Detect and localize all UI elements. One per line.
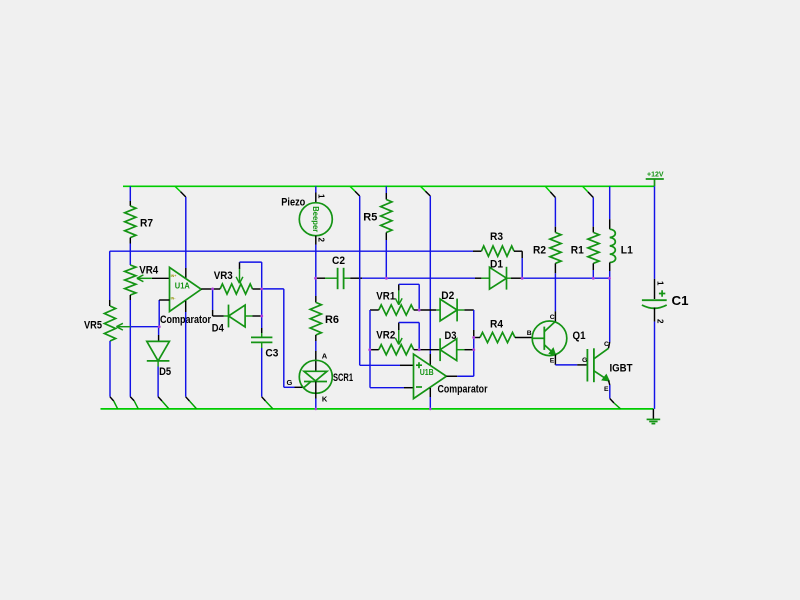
potentiometer VR2 [379, 345, 414, 355]
junction R1 bottom [592, 277, 595, 280]
resistor R3 [481, 246, 514, 256]
wire VR3 node right and down to SCR gate [262, 288, 284, 290]
wire R4 to Q1 base [515, 337, 533, 339]
wire C2 to D1 anode [362, 277, 475, 279]
wire R3 right down [514, 250, 522, 252]
wire VR2 right lead [414, 349, 419, 351]
wire rail to U1A V+ pin [175, 186, 181, 191]
wire VR5 to bottom rail [109, 341, 111, 397]
svg-text:1: 1 [317, 194, 326, 199]
wire C3 to bottom rail [261, 342, 263, 348]
svg-text:SCR1: SCR1 [333, 372, 353, 384]
resistor R4 [480, 332, 515, 342]
svg-text:D3: D3 [445, 330, 457, 342]
svg-text:U1A: U1A [175, 281, 190, 290]
potentiometer VR5 [104, 306, 115, 341]
junction VR2 left [368, 348, 371, 351]
diode D1 [490, 267, 507, 289]
svg-text:VR5: VR5 [84, 319, 102, 331]
wire U1B V- to bottom rail [429, 388, 431, 397]
wire R2 to Q1 collector [554, 263, 556, 273]
svg-text:VR3: VR3 [214, 270, 233, 282]
wire D5 to bottom rail [157, 361, 159, 367]
wire +12V top power rail [123, 185, 655, 187]
svg-text:1: 1 [655, 281, 664, 286]
wire +in feed [360, 364, 400, 366]
svg-text:IN-: IN- [171, 297, 177, 301]
wire VR1 right lead [414, 309, 419, 311]
svg-text:2: 2 [655, 319, 664, 324]
svg-text:R1: R1 [571, 245, 584, 257]
transistor IGBT [582, 341, 633, 393]
wire R6 to SCR anode [315, 335, 317, 341]
wire ground bottom rail [101, 408, 654, 410]
wire rail to piezo pin1 [315, 186, 317, 192]
wire VR4 wiper to U1A +in [152, 277, 170, 279]
svg-text:A: A [322, 352, 328, 361]
junction L1 bottom [608, 277, 611, 280]
wire U1A V- to bottom rail [185, 301, 187, 312]
junction VR3 right [260, 287, 263, 290]
inductor L1 [610, 229, 616, 262]
wire rail to C1 pin1 [654, 186, 656, 279]
wire VR5 wiper node [131, 326, 160, 328]
svg-text:R4: R4 [490, 319, 504, 331]
capacitor C2 [316, 255, 362, 289]
resistor R7 [125, 206, 136, 238]
junction VR5 wiper node [158, 325, 161, 328]
svg-text:Comparator: Comparator [438, 383, 489, 395]
wire rail drop to U1B V+ [421, 186, 426, 191]
diode D3 [440, 339, 457, 361]
wire VR2 left down to U1B -in [369, 350, 371, 388]
resistor R6 [310, 302, 321, 335]
junction R4 left node [472, 336, 475, 339]
wire SCR cathode to bottom rail [315, 382, 317, 399]
svg-text:R2: R2 [533, 245, 546, 257]
svg-text:C3: C3 [265, 348, 278, 360]
svg-text:G: G [582, 357, 587, 364]
wire VR1 wiper loop [398, 284, 400, 290]
resistor R2 [550, 233, 561, 264]
wire collector net horizontal [522, 277, 609, 279]
svg-text:R5: R5 [363, 211, 377, 223]
wire IGBT collector [609, 342, 610, 348]
power +12V symbol [646, 172, 664, 187]
ground symbol [647, 409, 661, 424]
wire piezo pin2 down [315, 236, 317, 245]
svg-text:2: 2 [317, 238, 326, 243]
wire L1 down [609, 263, 611, 272]
wire node to R6 [315, 278, 317, 296]
wire rail drop to R1 [583, 186, 588, 192]
wire VR2 wiper loop [398, 323, 400, 331]
potentiometer VR1 [379, 305, 414, 315]
thyristor SCR1 [299, 360, 353, 393]
svg-text:R3: R3 [490, 231, 503, 243]
svg-text:E: E [604, 386, 609, 393]
svg-text:+12V: +12V [647, 172, 664, 179]
resistor R1 [588, 233, 599, 264]
op-amp U1B [414, 354, 447, 399]
svg-text:VR1: VR1 [376, 291, 395, 303]
svg-text:K: K [322, 394, 328, 403]
wire left drop to VR5 [109, 251, 111, 300]
wire VR3 node down to D4 right [261, 289, 263, 316]
transistor Q1 [527, 314, 586, 364]
capacitor C1 polarized [642, 290, 689, 308]
wire rail to L1 [609, 186, 611, 219]
wire rail drop to R2 [545, 186, 550, 192]
svg-text:D2: D2 [441, 290, 454, 302]
svg-text:L1: L1 [621, 245, 633, 257]
svg-text:IGBT: IGBT [610, 362, 633, 374]
wire U1B output [446, 375, 457, 377]
junction D3 right [472, 348, 475, 351]
svg-text:D4: D4 [212, 322, 225, 334]
junction U1B V- at rail [429, 408, 432, 411]
svg-text:U1B: U1B [420, 368, 434, 377]
wire VR1-VR2 left link [369, 310, 371, 350]
junction U1A output [211, 287, 214, 290]
svg-text:VR2: VR2 [376, 330, 395, 342]
wire D3 to node [457, 349, 465, 351]
wire R7 to VR4 [129, 238, 131, 244]
wire R1 down [592, 263, 594, 270]
junction R5 bottom [385, 277, 388, 280]
wire D2 to R4 node [457, 309, 465, 311]
wire rail to R7 [129, 186, 131, 201]
junction D4 right [260, 315, 263, 318]
wire U1A output [201, 288, 212, 290]
wire VR2 left lead [370, 349, 379, 351]
wire rail to R5 [385, 186, 387, 193]
wire U1A out down to D4 [212, 289, 214, 310]
wire Q1 emitter to IGBT gate [554, 355, 556, 365]
svg-text:B: B [527, 330, 532, 337]
potentiometer VR4 [125, 265, 136, 295]
svg-text:C2: C2 [332, 255, 345, 267]
junction SCR cathode at rail [315, 408, 318, 411]
piezo beeper [299, 203, 332, 236]
diode D5 [147, 341, 170, 361]
svg-text:R6: R6 [325, 314, 339, 326]
capacitor C3 [251, 337, 278, 359]
wire VR1 left lead [370, 309, 379, 311]
potentiometer VR3 [220, 284, 252, 294]
wire net horizontal R3 line [110, 250, 473, 252]
svg-text:D1: D1 [490, 259, 503, 271]
svg-text:G: G [287, 378, 293, 387]
junction piezo/C2/R6 node [314, 277, 317, 280]
resistor R5 [381, 200, 392, 233]
junction VR2 right [418, 348, 421, 351]
svg-text:Beeper: Beeper [311, 206, 321, 233]
svg-text:IN+: IN+ [171, 274, 177, 278]
svg-text:Piezo: Piezo [281, 197, 305, 209]
diode D4 [229, 305, 246, 327]
svg-text:E: E [550, 357, 555, 364]
wire C1 pin2 to ground [654, 308, 656, 322]
wire VR1 to D2 [419, 309, 436, 311]
wire node down to U1B out [473, 338, 475, 377]
diode D2 [440, 299, 457, 321]
op-amp U1A [170, 267, 202, 311]
wire IGBT emitter to bottom rail [609, 380, 610, 385]
wire D4 node to C3 [261, 316, 263, 328]
junction VR1 right [418, 309, 421, 312]
svg-text:C1: C1 [672, 294, 689, 308]
wire VR3 wiper loop [239, 262, 241, 269]
wire rail drop to U1B +in [350, 186, 355, 191]
svg-text:VR4: VR4 [139, 265, 159, 277]
junction D1 cathode node [521, 277, 524, 280]
svg-text:C: C [550, 314, 555, 321]
wire U1A -in [158, 300, 160, 327]
svg-text:Q1: Q1 [573, 330, 586, 342]
wire VR2 to D3 [419, 349, 440, 351]
wire R5 down to C2 line [385, 233, 387, 241]
svg-text:D5: D5 [159, 366, 171, 378]
wire VR4 to bottom rail [129, 295, 131, 300]
svg-text:R7: R7 [140, 218, 153, 230]
wire node to D5 [158, 327, 160, 335]
